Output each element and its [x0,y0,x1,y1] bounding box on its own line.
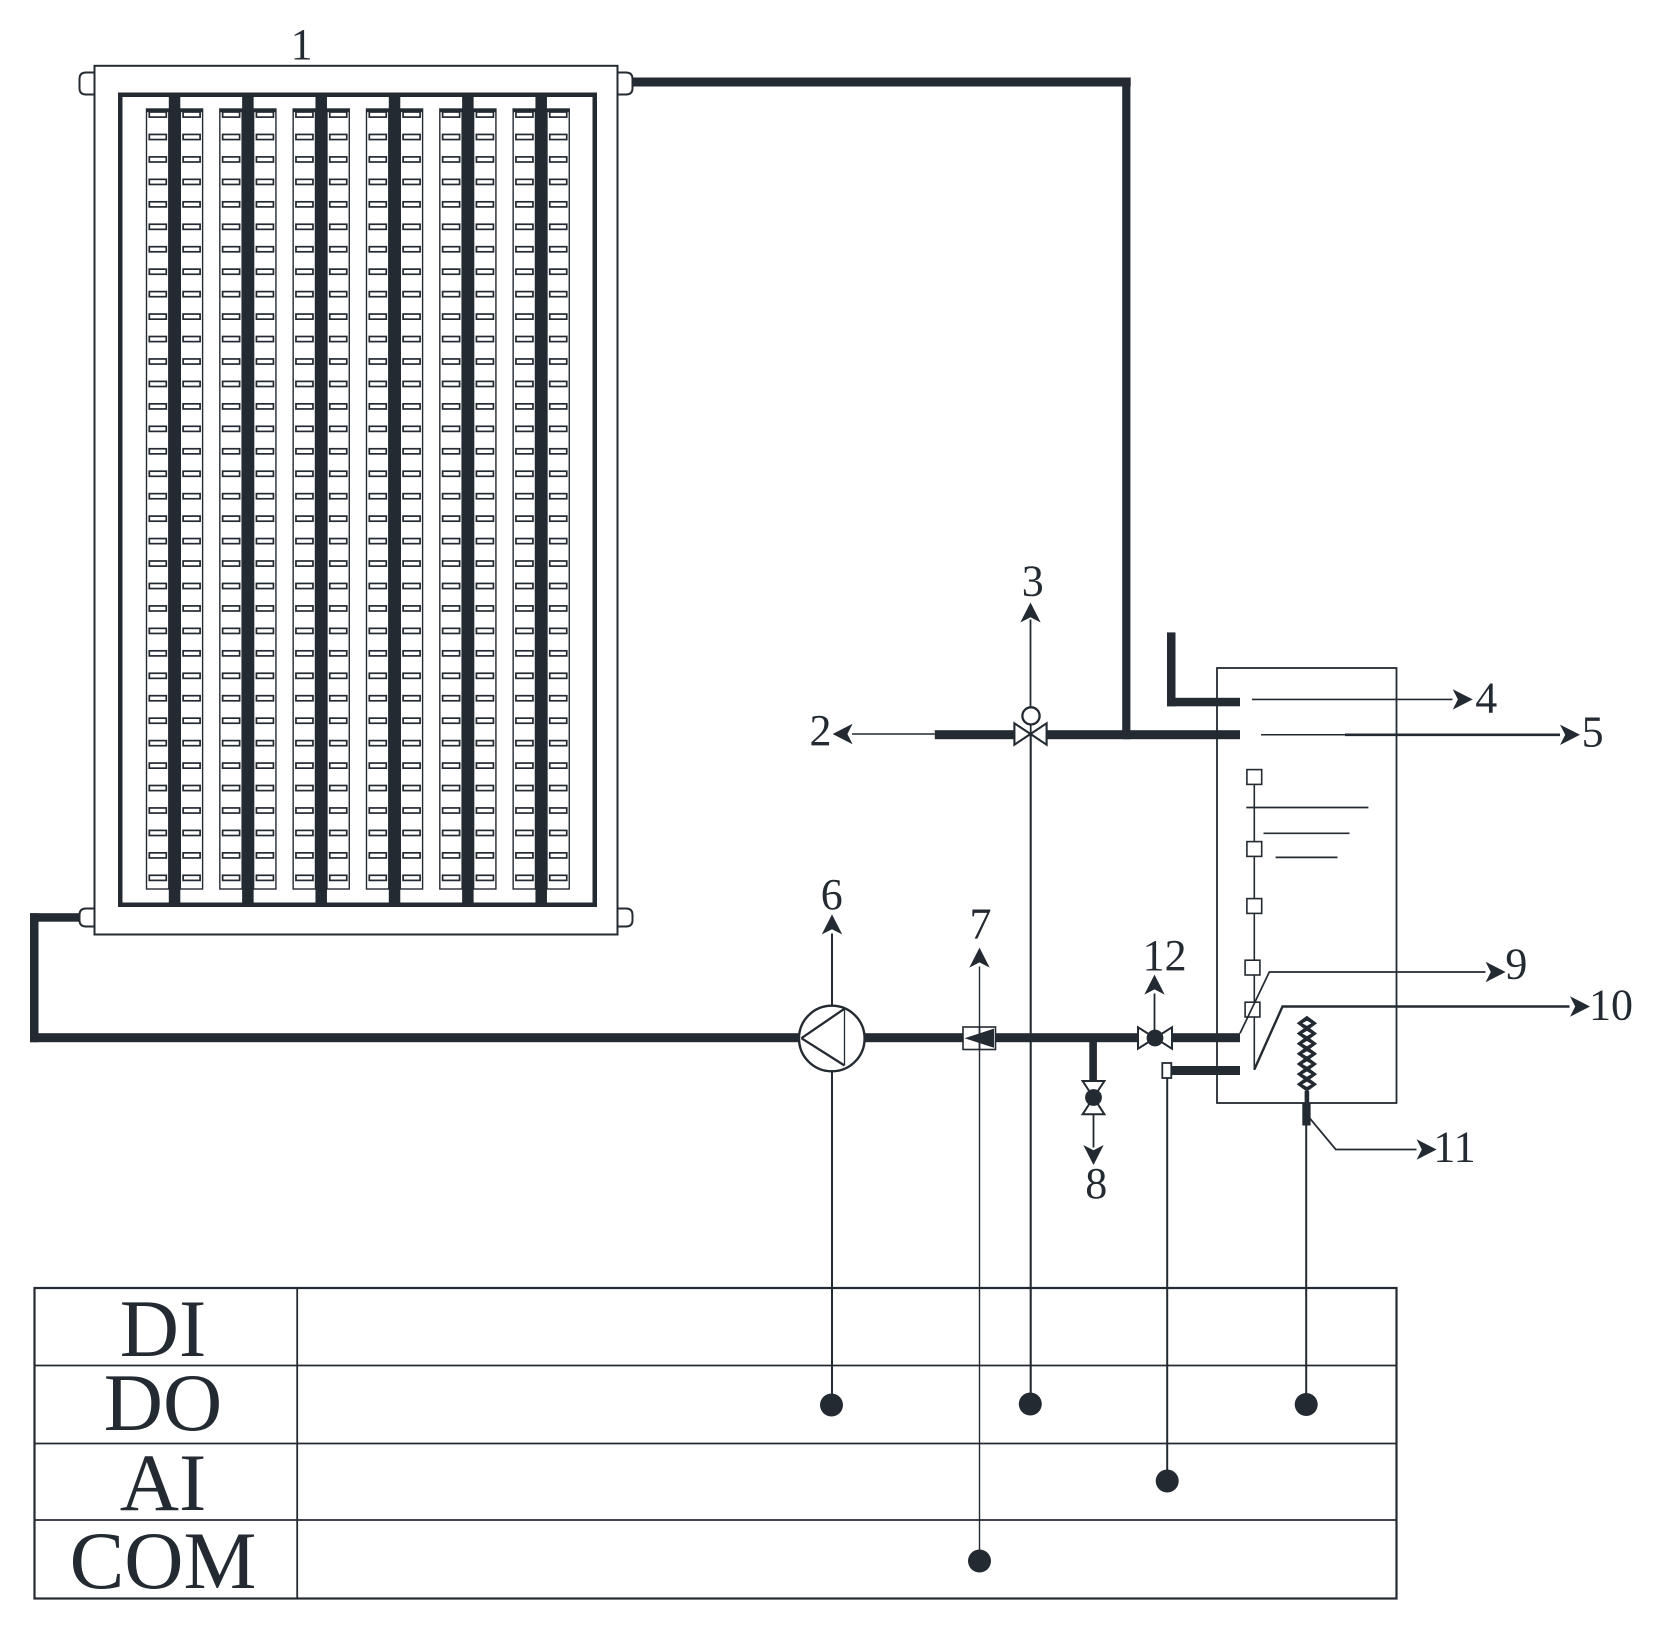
svg-text:COM: COM [70,1515,257,1606]
svg-text:1: 1 [291,20,313,69]
svg-text:7: 7 [970,900,992,949]
svg-text:12: 12 [1143,931,1187,980]
svg-text:10: 10 [1589,981,1633,1030]
svg-text:9: 9 [1505,940,1527,989]
svg-text:5: 5 [1582,708,1604,757]
svg-text:6: 6 [821,870,843,919]
svg-text:DO: DO [104,1357,222,1448]
svg-text:4: 4 [1475,674,1497,723]
svg-text:8: 8 [1085,1159,1107,1208]
svg-text:3: 3 [1022,557,1044,606]
svg-text:11: 11 [1433,1123,1475,1172]
svg-text:2: 2 [810,706,832,755]
